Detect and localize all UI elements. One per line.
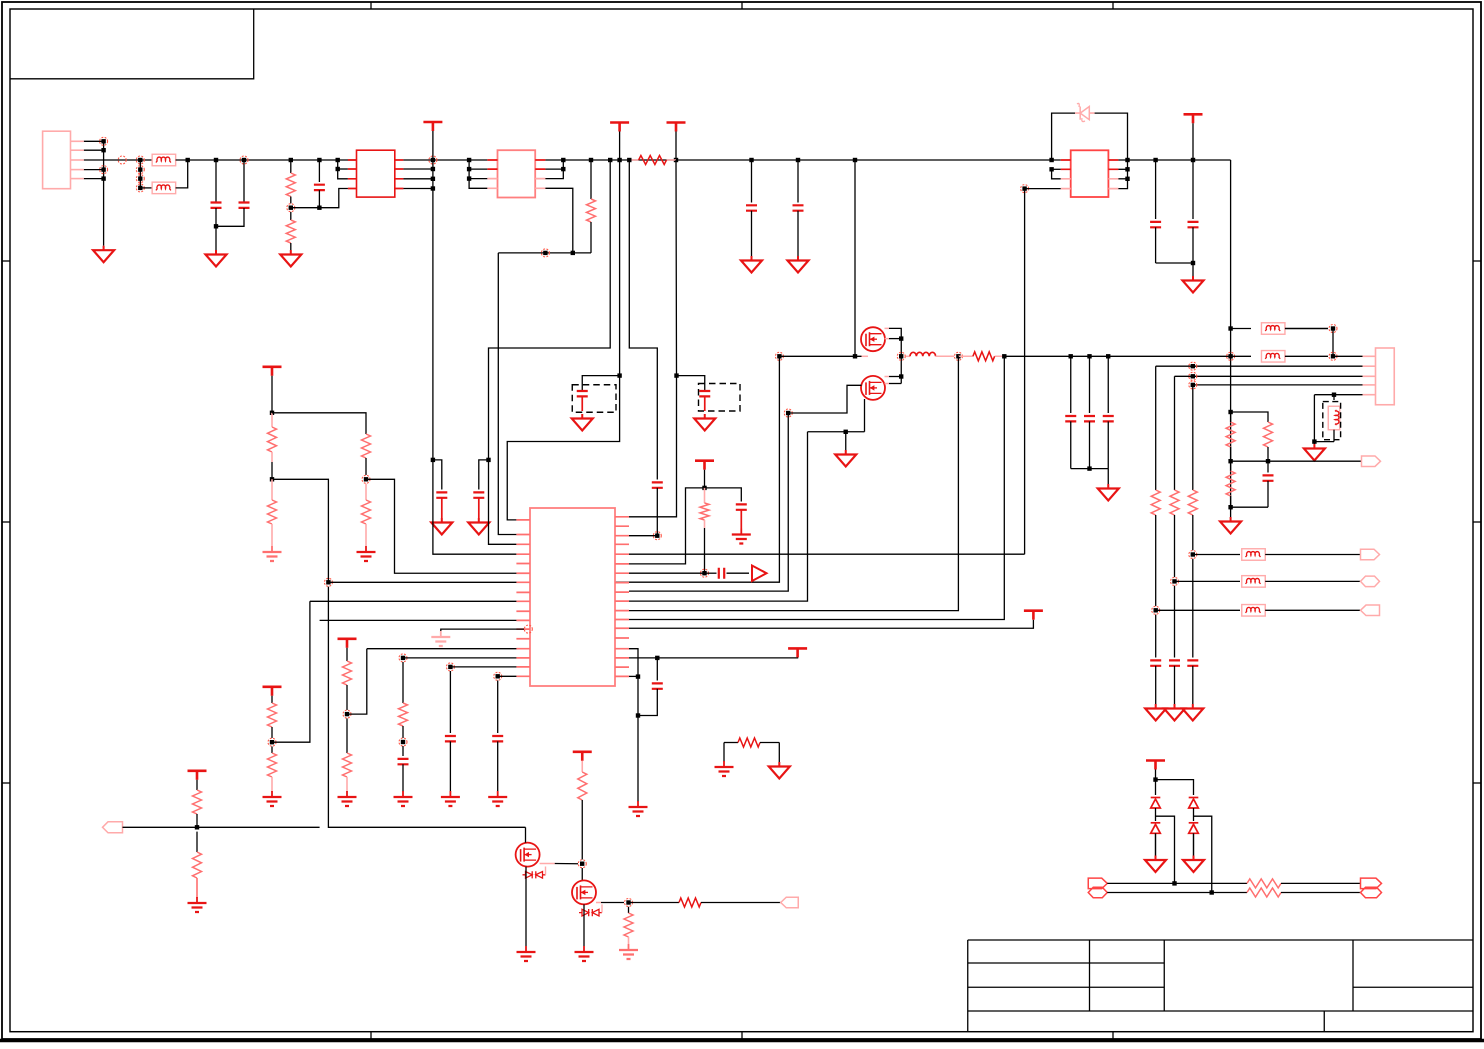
capacitor C3 bbox=[317, 158, 321, 162]
usb flag right D- bbox=[1361, 887, 1382, 898]
wire U5 pin4 from ring bbox=[1021, 185, 1029, 193]
resistor R18 series out bbox=[629, 902, 680, 904]
capacitor C22 lower bbox=[1267, 461, 1269, 472]
ground earth bbox=[365, 546, 367, 552]
wire clamp bottoms bbox=[1155, 833, 1157, 856]
capacitor C7 bbox=[1155, 160, 1157, 219]
wire output bus corner bbox=[1230, 412, 1232, 510]
resistor R25 bbox=[1170, 490, 1179, 515]
ground bbox=[1174, 704, 1176, 709]
signal arrow flag bbox=[752, 566, 767, 582]
resistor R2 bbox=[290, 212, 292, 220]
signal flag row3 bbox=[1361, 605, 1380, 616]
wire pin G net bbox=[310, 600, 517, 602]
ground bbox=[1155, 856, 1157, 861]
title box top-left bbox=[10, 9, 254, 79]
ground bbox=[1192, 263, 1194, 276]
wire Q1 gate line bbox=[775, 352, 783, 360]
wire Q3 source to ring bbox=[540, 863, 555, 865]
ground earth bbox=[583, 946, 585, 952]
junction ring IC pin R1 bbox=[653, 532, 661, 540]
capacitor C11 bbox=[1107, 356, 1109, 413]
capacitor C13 snubber bbox=[577, 391, 588, 396]
capacitor C14 bbox=[652, 482, 663, 487]
wire jog to C4 bbox=[433, 460, 442, 490]
wire clamp taps bbox=[1155, 808, 1157, 821]
ground bbox=[581, 414, 583, 419]
wire U1 bus down to IC pin C bbox=[432, 160, 434, 460]
border zone ticks bbox=[370, 2, 372, 9]
capacitor C25 bbox=[1192, 559, 1194, 658]
ferrite bead FB1 bbox=[152, 154, 176, 166]
capacitor C5 bbox=[751, 160, 753, 203]
capacitor C19 pin L chain bbox=[449, 671, 451, 733]
zener Z2 bbox=[579, 909, 602, 916]
power flag +V shifter bbox=[573, 750, 592, 753]
capacitor C23 bbox=[1155, 615, 1157, 658]
wire FB3 to pin1 bbox=[1332, 329, 1334, 357]
wire to IC pin B bbox=[489, 460, 517, 544]
wire combo left branch to pin R3 bbox=[629, 488, 705, 564]
wire U2 pin2r pin3r bbox=[545, 168, 563, 170]
wire pin M net bbox=[494, 672, 502, 680]
wire usb line1 bbox=[1107, 882, 1247, 884]
capacitor C15 snubber bbox=[699, 391, 710, 396]
capacitor C17 series bbox=[705, 572, 717, 574]
wire ring to Q4 drain bbox=[581, 868, 583, 880]
capacitor C20 pin M chain bbox=[497, 681, 499, 734]
wire pin R8 net to T bbox=[629, 620, 1033, 629]
wire IC pinC bus top bbox=[854, 160, 856, 356]
wire rail to U5 bbox=[855, 159, 1061, 161]
output signal flag bbox=[781, 897, 799, 908]
resistor R14 bbox=[346, 718, 348, 753]
wire divider3 tap to pin G bbox=[272, 601, 310, 742]
wire sense drop 1 bbox=[1155, 366, 1157, 490]
wire bus continues to IC pin C bbox=[433, 460, 517, 554]
resistor R28 series usb2 bbox=[1247, 888, 1281, 897]
capacitor C6 bbox=[797, 160, 799, 203]
wire combo right branch bbox=[705, 488, 742, 502]
IC U4 main controller bbox=[530, 508, 615, 686]
wire pin J net bbox=[367, 648, 517, 650]
power flag +V divider1 bbox=[263, 365, 282, 368]
capacitor C9 bbox=[1070, 356, 1072, 413]
wire branch to snubber C15 bbox=[677, 376, 705, 390]
junction ring row1 bbox=[1189, 551, 1197, 559]
wire Q2 gate net bbox=[784, 409, 792, 417]
wire jog to C12 bbox=[479, 460, 489, 490]
wire U5 pin4 net down to IC bbox=[1024, 189, 1026, 555]
junction ring row3 bbox=[1152, 606, 1160, 614]
wire main rail from J1 bbox=[84, 159, 152, 161]
junction ring divider3 bbox=[268, 738, 276, 746]
mosfet Q1 bbox=[861, 327, 885, 351]
diode D2 bbox=[1151, 798, 1161, 809]
ferrite bead FB8 bbox=[1242, 605, 1266, 617]
wire pin R13 net bbox=[629, 649, 638, 802]
capacitor C21 bbox=[656, 658, 658, 681]
wire branch to snubber C13 bbox=[582, 376, 619, 390]
wire left leg bbox=[723, 743, 725, 763]
dashed box snubber2 bbox=[699, 384, 741, 412]
wire Q4 source to ring bbox=[596, 902, 601, 904]
wire Q4 ground leg bbox=[583, 904, 585, 946]
wire rail drop D bbox=[629, 160, 677, 517]
ground earth bbox=[440, 631, 442, 637]
wire fb join bbox=[1230, 412, 1232, 422]
diode D4 bbox=[1151, 823, 1161, 834]
ferrite bead FB4 bbox=[1231, 355, 1251, 357]
ferrite bead FB3 bbox=[1261, 323, 1285, 335]
mosfet Q4 bbox=[572, 880, 596, 904]
diode D5 bbox=[1189, 823, 1199, 834]
wire Q2 drain stubs bbox=[885, 377, 890, 384]
ferrite bead FB7 bbox=[1242, 576, 1266, 588]
resistor R26 bbox=[1188, 490, 1197, 515]
power flag +V pin R8 bbox=[1024, 609, 1043, 612]
wire pin E chain down to bottom rail bbox=[328, 587, 525, 828]
wire pin R15 net bbox=[629, 675, 638, 677]
wire pin L net bbox=[446, 663, 454, 671]
connector J2 bbox=[1376, 348, 1395, 405]
wire fb divider feed bbox=[1231, 412, 1268, 422]
connector J1 bbox=[43, 131, 71, 189]
wire Q2 source to ground bbox=[864, 399, 866, 432]
diode D1 over U5 bbox=[1052, 113, 1075, 160]
wire pin E net from divider bbox=[324, 578, 332, 586]
ground bbox=[1107, 469, 1109, 484]
ground bbox=[1230, 507, 1232, 517]
usb flag left D+ bbox=[1088, 878, 1107, 889]
resistor R27 series usb1 bbox=[1247, 879, 1281, 888]
dashed box snubber1 bbox=[572, 385, 616, 413]
ground earth bbox=[637, 801, 639, 807]
resistor R15 bbox=[193, 790, 202, 814]
wire U5 right pins bbox=[1125, 158, 1129, 162]
wire pin K net bbox=[399, 654, 407, 662]
usb flag right D+ bbox=[1361, 878, 1382, 889]
wire Q1 drain loop bbox=[885, 328, 890, 338]
wire to output flag bbox=[701, 902, 781, 904]
ferrite bead FB2 bbox=[140, 187, 152, 189]
resistor R13 bbox=[343, 661, 352, 685]
wire row3 to bead bbox=[1156, 609, 1240, 611]
resistor R5 series bbox=[958, 355, 1004, 357]
wire U1 right pins to bus bbox=[403, 159, 469, 161]
ground earth bbox=[497, 791, 499, 797]
ground bbox=[441, 518, 443, 523]
junction ring output bbox=[625, 899, 633, 907]
wire right leg bbox=[778, 743, 780, 763]
IC U5 bbox=[1071, 150, 1109, 197]
resistor R21 bbox=[1226, 422, 1235, 447]
power flag +V combo bbox=[695, 459, 714, 462]
ground earth bbox=[723, 761, 725, 767]
resistor R17 bbox=[578, 772, 587, 800]
resistor R12 bbox=[271, 747, 273, 754]
wire J1 ground bus bbox=[103, 141, 105, 245]
resistor R16 bbox=[196, 832, 198, 852]
junction ring FB3 out bbox=[1329, 325, 1337, 333]
wire sense drop 3 bbox=[1192, 385, 1194, 490]
ground bbox=[704, 414, 706, 419]
wire U2 left pins bbox=[467, 158, 471, 162]
zener Z1 bbox=[523, 871, 546, 878]
junction ring divider4 bbox=[343, 710, 351, 718]
mosfet Q3 bbox=[516, 843, 540, 867]
ground earth bbox=[402, 791, 404, 797]
junction ring FB4 out bbox=[1329, 352, 1337, 360]
wire divider2 feed bbox=[272, 413, 366, 434]
resistor R6 combo bbox=[704, 488, 706, 503]
wire caps join bbox=[1071, 468, 1109, 470]
wire ESD loop bbox=[1314, 395, 1334, 442]
wire J2 pin4 net bbox=[1193, 384, 1363, 386]
wire divider1 tap bbox=[272, 479, 328, 582]
wire usb line2 bbox=[1107, 892, 1247, 894]
wire row1 to bead bbox=[1193, 554, 1240, 556]
wire switch node sense down bbox=[629, 356, 958, 610]
wire gate drive nets down bbox=[516, 356, 779, 582]
no-connect ring bbox=[118, 156, 126, 164]
capacitor C12 bbox=[473, 492, 484, 497]
ferrite bead FB6 bbox=[1242, 549, 1266, 561]
power flag +V U5 area bbox=[1184, 113, 1203, 116]
wire caps join bbox=[1156, 262, 1193, 264]
power flag +V input divider bbox=[188, 769, 207, 772]
resistor R3 from rail bbox=[590, 160, 592, 199]
ground bbox=[1193, 856, 1195, 861]
wire switch rail to connector bbox=[1004, 355, 1230, 357]
wire net at y253 bbox=[498, 252, 591, 254]
IC U1 bbox=[357, 150, 395, 197]
dashed box FB5 bbox=[1323, 402, 1341, 440]
wire rail drop C bbox=[629, 160, 657, 480]
wire corner down right bus bbox=[1230, 160, 1232, 412]
usb flag left D- bbox=[1088, 887, 1107, 898]
ground earth bbox=[271, 791, 273, 797]
junction ring R1 bottom bbox=[287, 204, 295, 212]
capacitor C1 bbox=[214, 158, 218, 162]
wire usb line2 out bbox=[1281, 892, 1361, 894]
wire fb bottom join bbox=[1231, 506, 1268, 508]
junction ring Q3-Q4 bbox=[578, 860, 586, 868]
wire main rail U2 right bbox=[545, 159, 676, 161]
wire U5 left pins bbox=[1049, 158, 1053, 162]
capacitor C24 bbox=[1174, 586, 1176, 658]
capacitor C2 bbox=[240, 156, 248, 164]
resistor R19 pulldown bbox=[628, 907, 630, 913]
ground earth bbox=[628, 944, 630, 950]
wire U2 pin4r down bbox=[545, 188, 572, 253]
capacitor C4 bbox=[436, 492, 447, 497]
wire divider2 tap to pin D bbox=[366, 479, 516, 573]
resistor R24 bbox=[1151, 490, 1160, 515]
ground bbox=[778, 762, 780, 767]
wire down to IC pin A bbox=[498, 253, 516, 535]
ground earth bbox=[196, 897, 198, 903]
wire U1 pin2 pin3 feed bbox=[336, 158, 340, 162]
power flag +V rail1 bbox=[610, 121, 629, 124]
wire clamp top join bbox=[1156, 780, 1194, 795]
wire main rail U1-U2 bbox=[469, 159, 487, 161]
wire sense drop 2 bbox=[1174, 376, 1176, 490]
wire pin H net bbox=[320, 619, 517, 621]
capacitor C8 bbox=[1192, 160, 1194, 219]
wire Q3 drain from input rail bbox=[525, 827, 527, 842]
ground earth bbox=[271, 546, 273, 552]
capacitor C16 bbox=[736, 504, 747, 509]
wire J1 pins to bus bbox=[84, 140, 104, 142]
IC U4 right pin stubs bbox=[615, 517, 629, 677]
resistor R23 lower bbox=[1230, 461, 1232, 471]
wire pin I earth bbox=[524, 625, 532, 633]
power flag +V divider3 bbox=[263, 685, 282, 688]
ground bbox=[751, 256, 753, 261]
signal flag row2 bbox=[1361, 576, 1380, 587]
ground earth bbox=[346, 791, 348, 797]
inductor L1 bbox=[897, 352, 905, 360]
resistor R22 bbox=[1264, 422, 1273, 447]
wire bead outputs join bbox=[176, 160, 188, 188]
ground bbox=[290, 250, 292, 255]
power flag +V rail2 bbox=[667, 121, 686, 124]
resistor R11 bbox=[268, 703, 277, 727]
power flag +V divider4 bbox=[338, 637, 357, 640]
wire divider4 tap to pin J bbox=[347, 649, 367, 714]
resistor R4 series rail bbox=[608, 158, 612, 162]
power flag +V bbox=[423, 121, 442, 124]
wire Q3 ground leg bbox=[525, 867, 527, 946]
junction rings header bbox=[136, 156, 144, 164]
signal flag fb bbox=[1362, 456, 1381, 467]
resistor R9 bbox=[362, 434, 371, 458]
resistor R10 bbox=[365, 484, 367, 500]
ground bbox=[1192, 704, 1194, 709]
input signal flag bbox=[103, 822, 123, 833]
junction ring divider2 bbox=[362, 475, 370, 483]
wire rail U5 to corner bbox=[1118, 159, 1230, 161]
wire fb out to flag bbox=[1268, 460, 1362, 462]
IC U2 bbox=[498, 150, 536, 197]
power flag +V clamp bbox=[1146, 759, 1165, 762]
ground earth bbox=[525, 946, 527, 952]
ground bbox=[1313, 442, 1315, 444]
capacitor C10 bbox=[1089, 356, 1091, 413]
signal flag row1 bbox=[1361, 549, 1380, 560]
wire row2 to bead bbox=[1175, 580, 1241, 582]
mosfet Q2 bbox=[861, 376, 885, 400]
diode D3 bbox=[1189, 798, 1199, 809]
wire J2 pin2 net bbox=[1156, 365, 1363, 367]
ground bbox=[1155, 704, 1157, 709]
capacitor C18 pin K chain bbox=[402, 662, 404, 703]
ground earth bbox=[740, 529, 742, 535]
wire input net bbox=[123, 826, 320, 828]
wire rail drop A bbox=[489, 160, 611, 460]
junction ring row2 bbox=[1171, 577, 1179, 585]
wire rail right section bbox=[676, 159, 855, 161]
ground bbox=[845, 432, 847, 450]
wire rail drop B bbox=[507, 160, 619, 520]
wire R1-C3-U1 pin4 net bbox=[291, 189, 348, 208]
wire J2 pin5 net bbox=[1314, 394, 1362, 396]
wire pin R14 net to T bbox=[629, 651, 798, 658]
wire usb line1 out bbox=[1281, 882, 1361, 884]
junction ring series cap bbox=[701, 569, 709, 577]
resistor R20 ground tie bbox=[724, 742, 738, 744]
resistor R1 bbox=[289, 158, 293, 162]
resistor R7 bbox=[271, 413, 273, 427]
title block table bbox=[968, 939, 1473, 941]
ground earth bbox=[449, 791, 451, 797]
power flag +V pin R14 bbox=[788, 647, 807, 650]
ground bbox=[797, 256, 799, 261]
IC U4 left pin stubs bbox=[516, 520, 530, 676]
ground bbox=[215, 250, 217, 255]
resistor R8 bbox=[271, 479, 273, 500]
ferrite bead FB5 vertical bbox=[1333, 395, 1335, 400]
ground bbox=[478, 518, 480, 523]
wire bead branch top bbox=[1231, 328, 1251, 330]
wire J2 pin3 net bbox=[1175, 375, 1363, 377]
ground bbox=[103, 246, 105, 251]
